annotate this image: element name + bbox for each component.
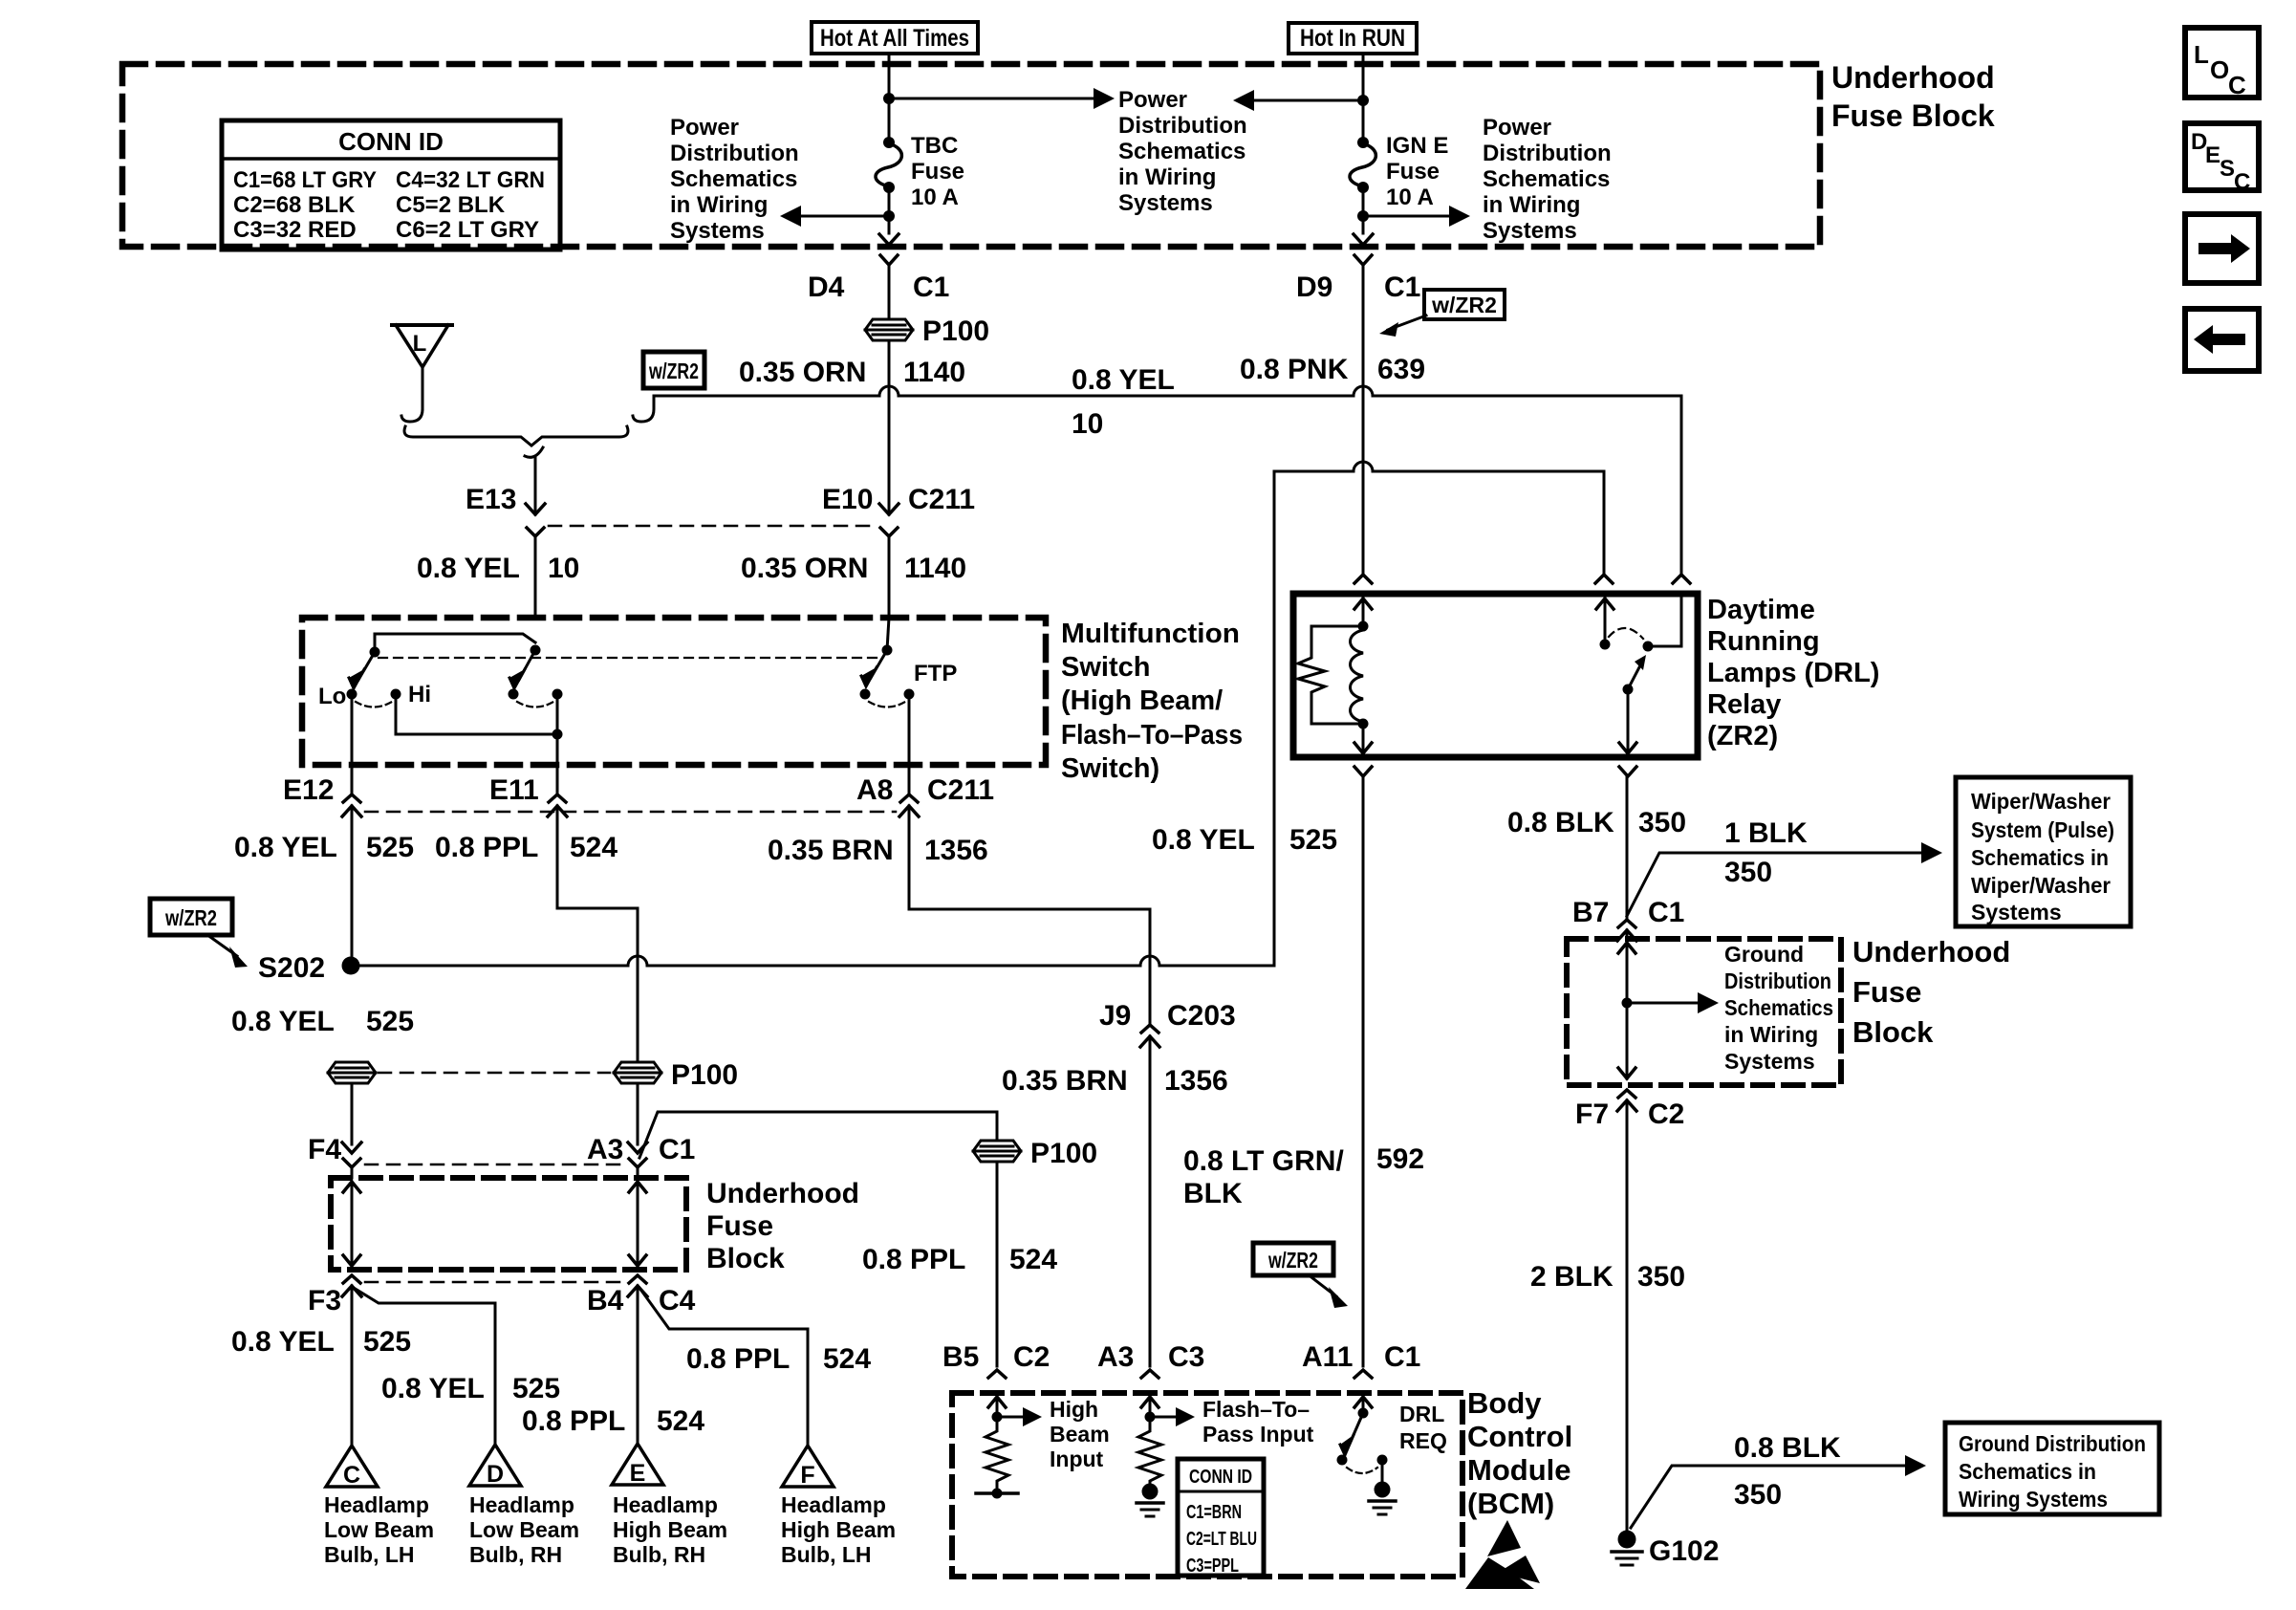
- nav box arrow right: [2185, 214, 2259, 283]
- wire below IGN E fuse: [1362, 187, 1365, 233]
- node Hot In RUN: [1289, 23, 1417, 54]
- wire branch F3 to lamp D: [354, 1288, 495, 1444]
- connector pin 5 below relay (to ground via fuse block): [1619, 767, 1636, 776]
- svg-text:Bulb, RH: Bulb, RH: [469, 1542, 562, 1567]
- connector E12 C211: [283, 774, 361, 966]
- svg-text:Fuse: Fuse: [706, 1210, 773, 1242]
- svg-text:C: C: [2234, 169, 2250, 195]
- svg-text:(High Beam/: (High Beam/: [1061, 685, 1223, 716]
- label 0.8 YEL 525 below S202: [231, 1006, 414, 1037]
- svg-text:C1: C1: [913, 272, 949, 303]
- svg-text:Underhood: Underhood: [706, 1178, 859, 1209]
- relay coil bottom junction: [1358, 719, 1369, 729]
- label 0.35 BRN 1356 (J9 wire): [1002, 1065, 1228, 1097]
- wire center tap down to E13: [534, 458, 537, 514]
- svg-text:Systems: Systems: [670, 218, 765, 244]
- svg-text:1356: 1356: [1164, 1065, 1228, 1097]
- wire 0.35 ORN 1140 down to E10: [888, 340, 891, 514]
- wire PPL down to A3: [637, 1083, 639, 1144]
- svg-text:IGN E: IGN E: [1386, 133, 1448, 159]
- svg-text:592: 592: [1376, 1143, 1424, 1175]
- svg-text:(BCM): (BCM): [1467, 1487, 1554, 1520]
- svg-text:Running: Running: [1707, 626, 1820, 657]
- svg-text:P100: P100: [671, 1059, 738, 1091]
- label Underhood Fuse Block (left): [706, 1178, 859, 1274]
- svg-text:D4: D4: [808, 272, 845, 303]
- switch feed junction FTP pole: [882, 645, 893, 656]
- dashed arc FTP: [869, 702, 905, 707]
- multifunction switch (dashed box): [302, 618, 1046, 765]
- svg-text:Beam: Beam: [1050, 1422, 1110, 1447]
- svg-text:0.35 ORN: 0.35 ORN: [739, 357, 866, 388]
- relay moving arm: [1623, 685, 1634, 695]
- connector pin 4 below relay (to BCM DRL REQ): [1354, 767, 1372, 776]
- lamp C (headlamp low beam LH): [324, 1446, 434, 1567]
- svg-text:C: C: [343, 1462, 360, 1489]
- svg-text:Daytime: Daytime: [1707, 595, 1815, 625]
- svg-text:Wiring Systems: Wiring Systems: [1959, 1487, 2108, 1512]
- connector E10 C211: [822, 484, 975, 618]
- svg-text:Flash–To–: Flash–To–: [1202, 1397, 1310, 1422]
- label Underhood Fuse Block (right): [1852, 935, 2010, 1049]
- fuse TBC 10 A: [883, 137, 895, 148]
- svg-text:350: 350: [1638, 807, 1686, 838]
- svg-text:DRL: DRL: [1399, 1402, 1444, 1426]
- label Underhood Fuse Block: [1831, 60, 1995, 133]
- BCM flash-to-pass input: [1137, 1395, 1314, 1516]
- label 0.35 ORN 1140 (E10 wire): [741, 553, 966, 584]
- svg-text:Switch: Switch: [1061, 652, 1150, 683]
- svg-text:Hot At All Times: Hot At All Times: [820, 25, 969, 52]
- wire feed to left pole: [375, 634, 535, 652]
- svg-text:Systems: Systems: [1483, 218, 1577, 244]
- svg-text:Bulb, LH: Bulb, LH: [781, 1542, 872, 1567]
- svg-text:Ground: Ground: [1724, 942, 1804, 967]
- svg-text:Wiper/Washer: Wiper/Washer: [1971, 789, 2111, 814]
- wire from Hot At All Times to TBC fuse: [888, 54, 891, 142]
- svg-text:(ZR2): (ZR2): [1707, 721, 1778, 751]
- svg-text:G102: G102: [1649, 1535, 1719, 1567]
- wire branch 0.8 BLK 350 to ground distribution: [1631, 1466, 1907, 1528]
- svg-text:10: 10: [548, 553, 579, 584]
- wire E12 (0.8 YEL) from Lo contact: [351, 694, 354, 794]
- svg-text:0.8 YEL: 0.8 YEL: [231, 1326, 335, 1358]
- junction dot: [1357, 95, 1369, 106]
- connector E13 (C211): [466, 484, 545, 618]
- svg-text:Headlamp: Headlamp: [781, 1492, 886, 1517]
- ground (internal): [1375, 1482, 1391, 1498]
- svg-text:TBC: TBC: [911, 133, 958, 159]
- svg-text:A8: A8: [856, 774, 893, 806]
- ground G102: [1612, 1531, 1719, 1568]
- note Power Distribution Schematics (left of TBC fuse): [670, 115, 799, 244]
- svg-text:C2=68 BLK: C2=68 BLK: [233, 192, 356, 218]
- label Multifunction Switch: [1061, 619, 1243, 784]
- svg-text:C5=2 BLK: C5=2 BLK: [396, 192, 506, 218]
- contact (middle pole right): [552, 689, 563, 700]
- svg-text:1140: 1140: [903, 357, 965, 388]
- wire drop from YEL bus with hook: [633, 396, 654, 422]
- svg-text:Power: Power: [1483, 115, 1551, 141]
- wire through fuse block 2: [1626, 942, 1629, 1078]
- nav box LOC: [2185, 28, 2259, 99]
- connector E11 C211: [489, 774, 567, 816]
- svg-text:2 BLK: 2 BLK: [1530, 1261, 1614, 1293]
- svg-text:525: 525: [512, 1373, 560, 1404]
- svg-text:Ground Distribution: Ground Distribution: [1959, 1431, 2146, 1456]
- connector dashed line C211 bottom: [365, 811, 896, 814]
- svg-text:Power: Power: [1118, 87, 1187, 113]
- connector F3: [308, 1275, 361, 1316]
- wire YEL down to F4: [351, 1083, 354, 1144]
- svg-text:L: L: [413, 331, 427, 357]
- relay coil top junction: [1358, 621, 1369, 632]
- svg-text:E10: E10: [822, 484, 873, 515]
- nav box arrow left: [2185, 309, 2259, 371]
- svg-text:Fuse: Fuse: [1386, 159, 1440, 185]
- bus wire 0.8 YEL 525 (S202 to DRL relay, with crossover hump): [1274, 462, 1604, 966]
- svg-text:Schematics: Schematics: [1483, 166, 1610, 192]
- dashed arc Lo-Hi: [356, 702, 392, 707]
- relay contact from pin 3: [1648, 597, 1681, 646]
- svg-text:Fuse Block: Fuse Block: [1831, 98, 1995, 133]
- svg-text:Bulb, LH: Bulb, LH: [324, 1542, 415, 1567]
- svg-text:High Beam: High Beam: [781, 1517, 896, 1542]
- lamp F (headlamp high beam LH): [781, 1446, 896, 1567]
- connector A3 C3: [1097, 1341, 1204, 1378]
- svg-text:A3: A3: [587, 1134, 623, 1165]
- connector pin 3 (switch common feed): [1673, 575, 1690, 583]
- svg-text:Input: Input: [1050, 1447, 1104, 1471]
- svg-text:C4: C4: [659, 1285, 696, 1316]
- switch feed junction (from E13): [531, 645, 541, 656]
- svg-text:E11: E11: [489, 774, 539, 806]
- BCM high beam input: [976, 1395, 1110, 1499]
- svg-text:Systems: Systems: [1724, 1049, 1815, 1074]
- contact FTP: [904, 689, 915, 700]
- svg-text:High: High: [1050, 1397, 1098, 1422]
- switch arm high/low beam (left pole): [358, 652, 375, 680]
- tag w/ZR2 (near S202): [150, 899, 248, 968]
- connector dashed line C1 (fuse block top): [365, 1164, 621, 1166]
- svg-text:Distribution: Distribution: [1483, 141, 1612, 166]
- svg-text:in Wiring: in Wiring: [1483, 192, 1580, 218]
- svg-text:10 A: 10 A: [1386, 185, 1434, 210]
- svg-text:Schematics: Schematics: [1724, 995, 1833, 1020]
- svg-text:0.8 LT GRN/: 0.8 LT GRN/: [1183, 1145, 1344, 1177]
- svg-text:CONN ID: CONN ID: [338, 127, 444, 156]
- wire E11 (0.8 PPL) inside switch: [556, 694, 559, 794]
- switch arm (middle pole): [519, 650, 535, 680]
- wire below TBC fuse: [888, 187, 891, 233]
- svg-text:w/ZR2: w/ZR2: [1267, 1248, 1318, 1273]
- fuse link F4-F3 (double arrow): [343, 1182, 360, 1266]
- relay arm to bottom pin: [1627, 689, 1630, 753]
- svg-text:B5: B5: [942, 1341, 979, 1373]
- svg-text:J9: J9: [1099, 1000, 1131, 1032]
- connector A8 C211: [856, 774, 994, 816]
- svg-text:O: O: [2210, 55, 2229, 84]
- dashed arc middle pole: [517, 702, 553, 707]
- svg-text:0.8 BLK: 0.8 BLK: [1734, 1432, 1841, 1464]
- svg-text:E: E: [630, 1460, 646, 1487]
- svg-text:Headlamp: Headlamp: [324, 1492, 429, 1517]
- wire branch 1 BLK 350 to wiper/washer: [1627, 853, 1923, 916]
- svg-text:525: 525: [366, 1006, 414, 1037]
- svg-text:Hot In RUN: Hot In RUN: [1300, 25, 1405, 52]
- svg-text:C3=PPL: C3=PPL: [1186, 1556, 1239, 1577]
- svg-text:1140: 1140: [904, 553, 966, 584]
- wire arrow right to Power Distribution: [1363, 215, 1451, 218]
- CONN ID table: [222, 120, 560, 250]
- svg-text:FTP: FTP: [914, 661, 957, 686]
- svg-text:350: 350: [1734, 1479, 1782, 1511]
- svg-text:L: L: [2194, 40, 2209, 69]
- twisted pair shield brace: [404, 426, 628, 446]
- svg-text:Schematics in: Schematics in: [1959, 1459, 2096, 1484]
- svg-text:F3: F3: [308, 1285, 341, 1316]
- svg-text:F: F: [800, 1462, 814, 1489]
- svg-text:0.8 PPL: 0.8 PPL: [862, 1244, 965, 1275]
- wire arrow right to Power Distribution: [889, 98, 1095, 100]
- hook at brace center tap: [525, 447, 543, 457]
- wire 2 BLK 350 to G102: [1626, 1100, 1629, 1534]
- dashed link between grommets: [379, 1072, 610, 1075]
- svg-text:P100: P100: [922, 315, 989, 347]
- svg-text:639: 639: [1377, 354, 1425, 385]
- svg-text:0.8 PPL: 0.8 PPL: [522, 1405, 625, 1437]
- connector D9 C1: [1296, 255, 1420, 572]
- svg-text:Underhood: Underhood: [1852, 935, 2010, 968]
- resistor (high beam input): [986, 1417, 1008, 1493]
- grommet P100 (left, on YEL wire): [328, 1062, 376, 1083]
- nav box DESC: [2185, 123, 2259, 195]
- DRL relay box: [1293, 594, 1698, 757]
- svg-text:Systems: Systems: [1971, 900, 2062, 925]
- wire 0.8 LT GRN/BLK 592 (relay coil to BCM A11): [1362, 776, 1365, 1366]
- underhood fuse block 2 (dashed box): [1567, 939, 1841, 1085]
- svg-text:Hi: Hi: [408, 682, 431, 707]
- underhood fuse block (dashed box): [122, 64, 1820, 247]
- wire branch A3 to BCM B5 (high beam input): [639, 1112, 997, 1158]
- connector J9 C203: [1099, 1000, 1236, 1366]
- svg-text:Schematics: Schematics: [670, 166, 797, 192]
- svg-text:0.8 YEL: 0.8 YEL: [234, 832, 337, 863]
- svg-text:0.35 BRN: 0.35 BRN: [768, 835, 894, 866]
- svg-text:A3: A3: [1097, 1341, 1134, 1373]
- svg-text:524: 524: [1009, 1244, 1057, 1275]
- ground (internal): [1142, 1484, 1159, 1500]
- wire arrow left to Power Distribution: [799, 215, 889, 218]
- pin arrow down (coil -): [1362, 724, 1365, 753]
- svg-text:0.8 YEL: 0.8 YEL: [381, 1373, 485, 1404]
- svg-text:Wiper/Washer: Wiper/Washer: [1971, 873, 2111, 898]
- contact (middle pole left): [509, 689, 519, 700]
- svg-text:Fuse: Fuse: [1852, 975, 1921, 1009]
- node Hot At All Times: [812, 22, 978, 54]
- svg-text:w/ZR2: w/ZR2: [648, 359, 699, 383]
- wire arrow left to Power Distribution: [1252, 99, 1363, 102]
- note Power Distribution Schematics (right of IGN E fuse): [1483, 115, 1612, 244]
- wire 0.8 YEL 525 F3 to lamp C: [351, 1286, 354, 1445]
- svg-text:525: 525: [366, 832, 414, 863]
- svg-text:Block: Block: [1852, 1015, 1934, 1049]
- svg-text:C1=68 LT GRY: C1=68 LT GRY: [233, 167, 377, 193]
- svg-text:Power: Power: [670, 115, 739, 141]
- svg-text:1356: 1356: [924, 835, 988, 866]
- tag w/ZR2 (near BCM): [1253, 1243, 1348, 1308]
- bus wire 0.8 YEL 10 (with crossover humps): [654, 386, 1681, 572]
- grommet P100 (on B5 wire): [973, 1138, 1097, 1169]
- arrow right to Ground Distribution text: [1627, 1002, 1700, 1005]
- svg-text:S202: S202: [258, 952, 325, 984]
- svg-text:B7: B7: [1572, 897, 1609, 928]
- contact FTP left: [860, 689, 871, 700]
- svg-text:C1=BRN: C1=BRN: [1186, 1502, 1242, 1523]
- svg-text:Systems: Systems: [1118, 190, 1213, 216]
- grommet P100 (on PPL wire): [614, 1059, 738, 1091]
- svg-text:w/ZR2: w/ZR2: [1431, 293, 1497, 317]
- svg-text:Distribution: Distribution: [670, 141, 799, 166]
- arrow out of fuse block (down): [879, 234, 899, 245]
- svg-text:C3=32 RED: C3=32 RED: [233, 217, 357, 243]
- svg-text:C: C: [2228, 71, 2246, 99]
- svg-text:Low Beam: Low Beam: [469, 1517, 579, 1542]
- connector A3 C1: [587, 1134, 695, 1178]
- relay NC contact with arrow up: [1604, 597, 1607, 644]
- resistor (flash-to-pass input): [1138, 1417, 1161, 1484]
- wire 0.8 PPL E11 to A3 C1: [557, 806, 638, 1059]
- label 0.8 PNK 639: [1240, 354, 1425, 385]
- svg-text:BLK: BLK: [1183, 1178, 1243, 1209]
- lamp D (headlamp low beam RH): [469, 1445, 579, 1567]
- connector D4 C1: [808, 255, 949, 316]
- svg-text:Lamps (DRL): Lamps (DRL): [1707, 658, 1879, 688]
- wire from Hot In RUN to IGN E fuse: [1362, 54, 1365, 142]
- connector B5 C2: [942, 1341, 1050, 1378]
- svg-text:C1: C1: [659, 1134, 695, 1165]
- svg-text:Multifunction: Multifunction: [1061, 619, 1240, 649]
- svg-text:Pass Input: Pass Input: [1202, 1422, 1314, 1447]
- svg-text:w/ZR2: w/ZR2: [164, 905, 217, 930]
- grommet P100 on ORN wire: [865, 315, 989, 347]
- svg-text:C211: C211: [927, 774, 994, 806]
- svg-text:10 A: 10 A: [911, 185, 959, 210]
- svg-text:0.35 BRN: 0.35 BRN: [1002, 1065, 1128, 1097]
- svg-text:Headlamp: Headlamp: [469, 1492, 574, 1517]
- lamp E (headlamp high beam RH): [612, 1444, 727, 1567]
- resistor (parallel with coil): [1298, 626, 1363, 724]
- svg-text:Bulb, RH: Bulb, RH: [613, 1542, 705, 1567]
- connector F4: [308, 1134, 361, 1178]
- wire 0.8 BLK 350 to B7: [1626, 776, 1629, 920]
- tag w/ZR2 (near antenna): [643, 352, 704, 388]
- antenna symbol L (twisted pair lead): [392, 325, 452, 422]
- connector pin 1 (relay coil +, from IGN E): [1354, 575, 1372, 583]
- connector B4 C4: [587, 1275, 696, 1316]
- label Body Control Module (BCM): [1467, 1386, 1572, 1520]
- svg-text:350: 350: [1637, 1261, 1685, 1293]
- svg-text:C1: C1: [1648, 897, 1684, 928]
- svg-text:Distribution: Distribution: [1118, 113, 1247, 139]
- svg-text:E13: E13: [466, 484, 516, 515]
- inductor coil: [1351, 630, 1364, 722]
- svg-text:Schematics in: Schematics in: [1971, 845, 2109, 870]
- svg-text:Block: Block: [706, 1243, 785, 1274]
- ESD sensitive symbol: [1465, 1520, 1540, 1589]
- note Power Distribution Schematics (middle): [1118, 87, 1247, 216]
- svg-text:E12: E12: [283, 774, 334, 806]
- labels under C211: [234, 832, 988, 866]
- svg-text:0.8 PNK: 0.8 PNK: [1240, 354, 1349, 385]
- BCM DRL REQ output switch: [1337, 1395, 1447, 1514]
- svg-text:in Wiring: in Wiring: [1724, 1022, 1818, 1047]
- underhood fuse block 3 (dashed box): [331, 1178, 686, 1270]
- svg-text:Body: Body: [1467, 1386, 1542, 1420]
- label Daytime Running Lamps (DRL) Relay (ZR2): [1707, 595, 1879, 751]
- svg-text:D: D: [487, 1461, 504, 1488]
- CONN ID table (BCM): [1178, 1459, 1264, 1577]
- connector pin 2 (to low beams via S202): [1595, 575, 1613, 583]
- svg-text:0.8 PPL: 0.8 PPL: [435, 832, 538, 863]
- svg-text:A11: A11: [1302, 1341, 1353, 1373]
- svg-text:Relay: Relay: [1707, 689, 1781, 720]
- svg-text:Module: Module: [1467, 1453, 1571, 1487]
- wire A8 from FTP contact: [908, 694, 911, 794]
- svg-text:C2: C2: [1013, 1341, 1050, 1373]
- pin arrow up (coil): [1362, 597, 1365, 626]
- svg-text:F7: F7: [1575, 1099, 1609, 1130]
- note Ground Distribution Schematics (inside fuse block): [1724, 942, 1833, 1074]
- svg-text:F4: F4: [308, 1134, 341, 1165]
- svg-text:Control: Control: [1467, 1420, 1572, 1453]
- svg-text:C211: C211: [908, 484, 975, 515]
- ganged switch dashed link: [379, 657, 883, 659]
- wire 0.8 PPL 524 B4 to lamp E: [637, 1286, 639, 1444]
- svg-text:C1: C1: [1384, 1341, 1420, 1373]
- svg-text:10: 10: [1072, 408, 1103, 440]
- svg-text:Underhood: Underhood: [1831, 60, 1995, 95]
- contact Hi: [391, 689, 401, 700]
- svg-text:350: 350: [1724, 857, 1772, 888]
- svg-text:P100: P100: [1030, 1138, 1097, 1169]
- connector dashed line C211 top: [549, 525, 876, 528]
- svg-text:0.8 YEL: 0.8 YEL: [1072, 364, 1175, 396]
- svg-text:E: E: [2205, 142, 2220, 168]
- tag w/ZR2 (near D9): [1379, 290, 1505, 337]
- svg-text:in Wiring: in Wiring: [1118, 164, 1216, 190]
- svg-text:High Beam: High Beam: [613, 1517, 727, 1542]
- junction dot: [883, 93, 895, 104]
- svg-text:Lo: Lo: [318, 684, 346, 709]
- svg-text:C2: C2: [1648, 1099, 1684, 1130]
- svg-text:CONN ID: CONN ID: [1189, 1467, 1252, 1488]
- svg-text:REQ: REQ: [1399, 1428, 1447, 1453]
- wire 0.8 PPL 524 to BCM B5: [996, 1162, 999, 1366]
- svg-text:0.8 YEL: 0.8 YEL: [417, 553, 520, 584]
- svg-text:0.8 YEL: 0.8 YEL: [1152, 824, 1255, 856]
- contact Lo: [347, 689, 357, 700]
- svg-text:1 BLK: 1 BLK: [1724, 817, 1808, 849]
- svg-text:C203: C203: [1167, 1000, 1236, 1032]
- svg-text:Switch): Switch): [1061, 753, 1159, 784]
- svg-text:0.8 YEL: 0.8 YEL: [231, 1006, 335, 1037]
- svg-text:B4: B4: [587, 1285, 624, 1316]
- svg-text:Schematics: Schematics: [1118, 139, 1245, 164]
- switch arm flash-to-pass: [871, 650, 887, 678]
- svg-text:524: 524: [570, 832, 617, 863]
- svg-text:C1: C1: [1384, 272, 1420, 303]
